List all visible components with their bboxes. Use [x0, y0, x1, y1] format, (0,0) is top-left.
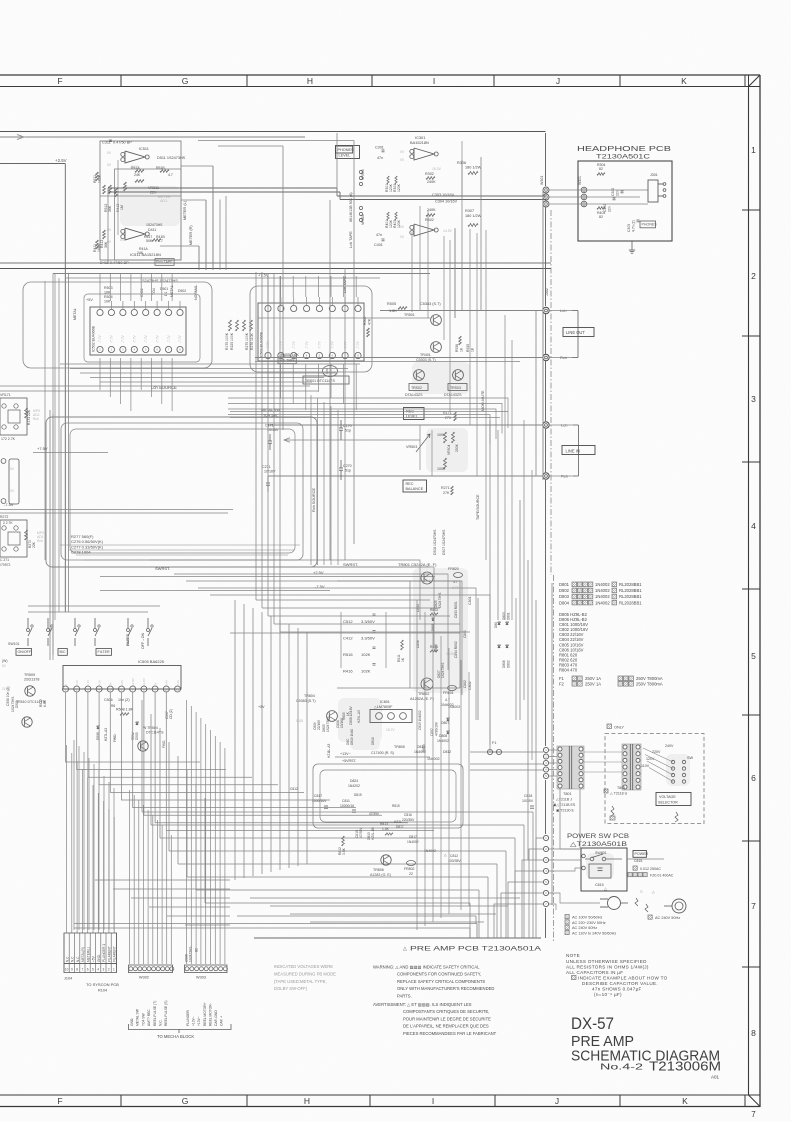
svg-text:ONLY: ONLY [614, 726, 625, 730]
svg-text:T801: T801 [617, 786, 625, 790]
svg-text:4: 4 [97, 968, 99, 972]
svg-text:POWER: POWER [635, 852, 649, 856]
svg-text:C278 1004: C278 1004 [71, 550, 91, 555]
svg-text:-7.7V: -7.7V [292, 341, 296, 349]
svg-text:R503: R503 [104, 286, 113, 290]
svg-text:F1: F1 [492, 741, 496, 745]
svg-text:A1282A (E. F): A1282A (E. F) [410, 697, 435, 701]
svg-text:TO SYSCON PCB: TO SYSCON PCB [86, 982, 119, 987]
svg-text:0V: 0V [109, 682, 113, 686]
svg-text:HZ9L-B5: HZ9L-B5 [371, 827, 375, 840]
svg-text:TR401: TR401 [420, 353, 431, 357]
svg-text:ALL CAPACITORS IN µF: ALL CAPACITORS IN µF [566, 970, 623, 975]
svg-text:22: 22 [409, 872, 413, 876]
svg-text:AMT? REC: AMT? REC [147, 1009, 151, 1026]
svg-text:4.4V: 4.4V [165, 680, 169, 686]
svg-text:D801: D801 [507, 612, 511, 620]
svg-text:27K: 27K [443, 491, 450, 495]
svg-text:-7.5V: -7.5V [4, 502, 14, 507]
svg-text:C401: C401 [374, 243, 383, 247]
svg-text:15.3V: 15.3V [432, 167, 442, 171]
svg-text:R51B: R51B [156, 166, 165, 170]
svg-text:R416: R416 [343, 669, 353, 674]
svg-text:WARNING: △ AND ▨▨▨ INDICATE SA: WARNING: △ AND ▨▨▨ INDICATE SAFETY CRITI… [373, 965, 480, 970]
svg-text:1N4002: 1N4002 [595, 588, 610, 593]
svg-text:0.47/50 BP: 0.47/50 BP [113, 141, 132, 145]
svg-text:AC 100V 50/60Hz: AC 100V 50/60Hz [572, 916, 602, 920]
svg-text:DOLBY SW-OFF): DOLBY SW-OFF) [274, 986, 308, 991]
svg-text:R511: R511 [93, 175, 97, 183]
svg-text:-7.7V: -7.7V [133, 335, 137, 343]
svg-text:TR806: TR806 [373, 868, 384, 872]
svg-text:R271: R271 [441, 486, 450, 490]
svg-text:PRE AMP PCB T2130A501A: PRE AMP PCB T2130A501A [410, 946, 542, 953]
svg-text:G: G [182, 1096, 189, 1106]
svg-text:47K: 47K [368, 318, 372, 325]
svg-text:C304 10/16V: C304 10/16V [435, 200, 458, 204]
svg-text:47n: 47n [377, 156, 383, 160]
svg-text:HZ2L: HZ2L [394, 820, 402, 824]
svg-text:+13V~: +13V~ [340, 752, 351, 756]
svg-text:I: I [432, 1096, 434, 1106]
svg-text:TRS02: TRS02 [411, 386, 422, 390]
svg-text:R516: R516 [343, 652, 353, 657]
svg-text:RL2028BB1: RL2028BB1 [619, 582, 642, 587]
svg-text:1K: 1K [471, 347, 475, 352]
svg-text:D807: D807 [441, 721, 449, 725]
svg-text:A1283 (G. E): A1283 (G. E) [370, 873, 391, 877]
svg-text:IC511 BA15218N: IC511 BA15218N [130, 252, 161, 257]
svg-text:Rch: Rch [37, 539, 43, 543]
svg-text:CrO2: CrO2 [140, 288, 144, 297]
svg-text:SELECTOR: SELECTOR [658, 800, 678, 804]
svg-text:INDICATE EXAMPLE ABOUT HOW TO: INDICATE EXAMPLE ABOUT HOW TO [578, 976, 668, 981]
svg-text:AC 110V to 240V 50/60Hz: AC 110V to 240V 50/60Hz [572, 931, 616, 935]
svg-text:LEVEL: LEVEL [406, 415, 418, 419]
svg-text:R536: R536 [455, 344, 459, 352]
svg-text:TR501: TR501 [404, 313, 415, 317]
svg-text:2: 2 [108, 968, 110, 972]
svg-text:D817: D817 [396, 825, 404, 829]
svg-text:R306: R306 [457, 161, 466, 165]
svg-text:4.7n (Z): 4.7n (Z) [632, 220, 636, 232]
svg-text:R405 1.6K: R405 1.6K [281, 353, 299, 357]
svg-text:1N4002: 1N4002 [437, 739, 449, 743]
svg-text:MEASURED DURING PB MODE: MEASURED DURING PB MODE [274, 971, 336, 976]
svg-text:C5383 (S.T): C5383 (S.T) [420, 302, 441, 306]
svg-text:-7.7V: -7.7V [155, 335, 159, 343]
svg-text:0.012 250AC: 0.012 250AC [640, 867, 661, 871]
svg-text:METER(L): METER(L) [86, 947, 90, 962]
svg-text:13/16V: 13/16V [340, 717, 344, 728]
svg-text:10: 10 [65, 968, 69, 972]
svg-text:IC502 BU4066B: IC502 BU4066B [92, 325, 96, 352]
svg-text:HZ9L-A3: HZ9L-A3 [357, 710, 361, 723]
svg-text:NOTE: NOTE [566, 953, 580, 958]
svg-text:8: 8 [751, 1028, 756, 1038]
svg-text:No.4-2: No.4-2 [600, 1062, 643, 1072]
svg-text:3.3/50V: 3.3/50V [361, 619, 375, 624]
svg-text:REEL MOTOR+: REEL MOTOR+ [203, 1002, 207, 1026]
svg-text:-7.7V: -7.7V [305, 341, 309, 349]
svg-text:D806: D806 [502, 660, 506, 668]
svg-text:1: 1 [751, 145, 756, 155]
svg-text:R804: R804 [430, 645, 438, 649]
svg-text:240K: 240K [427, 180, 436, 184]
svg-text:110V: 110V [641, 764, 650, 768]
svg-text:AVERTISSMENT: △ ET ▨▨▨. ILS IN: AVERTISSMENT: △ ET ▨▨▨. ILS INDIQUENT LE… [373, 1002, 472, 1007]
svg-text:D804: D804 [559, 600, 570, 605]
svg-text:CAP.-GND: CAP.-GND [214, 1010, 218, 1026]
svg-text:D801: D801 [559, 582, 570, 587]
svg-text:+13V~: +13V~ [192, 1016, 196, 1026]
svg-text:T213006M: T213006M [649, 1060, 721, 1074]
svg-text:F1: F1 [559, 676, 565, 681]
svg-text:250V T800mA: 250V T800mA [636, 682, 663, 687]
svg-text:FR802: FR802 [404, 867, 415, 871]
svg-text:PLUNGER 1: PLUNGER 1 [102, 944, 106, 962]
svg-text:N.C.: N.C. [159, 1019, 163, 1026]
svg-text:R813: R813 [380, 822, 388, 826]
svg-text:+5V: +5V [86, 298, 93, 302]
svg-text:22K: 22K [32, 541, 36, 548]
svg-text:BA15218N: BA15218N [410, 140, 429, 145]
svg-text:TAPE/SOURCE: TAPE/SOURCE [476, 494, 480, 520]
svg-text:180 1/2W: 180 1/2W [465, 166, 482, 170]
svg-text:36K: 36K [108, 205, 112, 212]
svg-text:△: △ [403, 946, 407, 952]
svg-text:C881: C881 [463, 630, 467, 638]
svg-text:B/C: B/C [60, 650, 66, 654]
svg-text:J: J [555, 1096, 559, 1106]
svg-text:RL2028BB1: RL2028BB1 [619, 588, 642, 593]
svg-text:R175 100K: R175 100K [225, 332, 229, 350]
svg-text:-7.1V: -7.1V [130, 165, 139, 169]
svg-text:15.5V: 15.5V [446, 652, 455, 656]
svg-text:IC801: IC801 [380, 700, 390, 704]
svg-text:+7.5V: +7.5V [258, 273, 269, 278]
svg-text:4780/16V: 4780/16V [435, 721, 439, 736]
svg-text:1K: 1K [460, 347, 464, 352]
svg-text:PHONES: PHONES [642, 223, 658, 227]
svg-text:C171: C171 [265, 424, 274, 428]
svg-text:△T2130A501B: △T2130A501B [570, 841, 627, 848]
svg-text:7: 7 [751, 901, 756, 911]
svg-text:D505: D505 [135, 732, 139, 740]
svg-text:C311: C311 [102, 141, 111, 145]
svg-text:R402: R402 [425, 218, 434, 222]
svg-text:R225 100K: R225 100K [230, 332, 234, 350]
svg-text:240V: 240V [665, 744, 674, 748]
svg-text:1N4002: 1N4002 [595, 600, 610, 605]
svg-text:F: F [57, 76, 62, 86]
svg-text:D824: D824 [350, 779, 358, 783]
svg-text:TRS03: TRS03 [450, 386, 461, 390]
svg-text:250V 1A: 250V 1A [585, 676, 601, 681]
svg-text:R6: R6 [111, 704, 115, 708]
svg-text:C813 1N4002: C813 1N4002 [418, 710, 422, 730]
svg-text:51p: 51p [345, 469, 351, 473]
svg-text:102K: 102K [361, 669, 371, 674]
svg-text:FR801: FR801 [443, 691, 454, 695]
svg-text:VR504: VR504 [447, 445, 451, 455]
svg-text:9: 9 [71, 968, 73, 972]
svg-text:1.6K: 1.6K [389, 309, 397, 313]
svg-text:C270: C270 [343, 464, 352, 468]
svg-text:▣ T2130 E: ▣ T2130 E [556, 809, 575, 813]
svg-text:1S2473HS: 1S2473HS [441, 663, 445, 678]
svg-text:J104: J104 [64, 977, 72, 981]
svg-text:8: 8 [76, 968, 78, 972]
svg-text:TR802: TR802 [418, 692, 429, 696]
svg-text:TR510 DTC114YS: TR510 DTC114YS [16, 700, 46, 704]
svg-text:C806: C806 [416, 640, 420, 648]
svg-text:D819 1N40: D819 1N40 [350, 729, 354, 745]
svg-text:△: △ [640, 889, 643, 893]
svg-text:LINE IN: LINE IN [566, 448, 580, 453]
svg-text:R804 470: R804 470 [559, 668, 578, 673]
svg-text:47n SHOWS 0.047µF: 47n SHOWS 0.047µF [592, 987, 642, 992]
svg-text:7: 7 [82, 968, 84, 972]
svg-text:D817: D817 [409, 835, 417, 839]
svg-text:15.7V: 15.7V [386, 728, 395, 732]
svg-text:△LM7805F: △LM7805F [374, 705, 393, 709]
svg-text:ONLY WITH MANUFACTURER'S RECOM: ONLY WITH MANUFACTURER'S RECOMMENDED [397, 986, 494, 991]
svg-text:C5383 (S.T): C5383 (S.T) [296, 699, 316, 703]
svg-text:REEL MOTOR-: REEL MOTOR- [208, 1003, 212, 1026]
svg-text:VR503: VR503 [406, 445, 417, 449]
svg-text:C815: C815 [634, 859, 642, 863]
svg-text:C170: C170 [343, 424, 352, 428]
svg-text:RL2028BB1: RL2028BB1 [619, 600, 642, 605]
svg-text:R307: R307 [465, 209, 474, 213]
svg-text:1N4002: 1N4002 [595, 594, 610, 599]
svg-text:Rch TAPE: Rch TAPE [156, 260, 173, 264]
svg-text:12.8V: 12.8V [142, 678, 146, 686]
svg-text:VR171: VR171 [0, 393, 11, 397]
svg-text:D814: D814 [417, 745, 425, 749]
svg-text:82: 82 [599, 215, 603, 219]
svg-text:FILTER: FILTER [126, 633, 130, 646]
svg-text:A01: A01 [711, 1075, 720, 1080]
svg-text:-7.7V: -7.7V [178, 335, 182, 343]
svg-text:F2: F2 [559, 682, 565, 687]
svg-text:D802: D802 [507, 660, 511, 668]
svg-text:D501: D501 [160, 287, 168, 291]
svg-text:△: △ [652, 890, 655, 894]
svg-text:2SD1378: 2SD1378 [24, 678, 39, 682]
svg-text:-7.7V: -7.7V [121, 335, 125, 343]
svg-text:4.7: 4.7 [158, 239, 163, 243]
svg-text:GND.: GND. [97, 954, 101, 962]
svg-text:RL2028BB1: RL2028BB1 [619, 594, 642, 599]
svg-text:4: 4 [751, 521, 756, 531]
svg-text:GND.: GND. [130, 1018, 134, 1026]
svg-text:24K: 24K [134, 173, 141, 177]
svg-text:D812: D812 [443, 750, 451, 754]
svg-text:TR804: TR804 [304, 694, 315, 698]
svg-text:1M: 1M [120, 205, 124, 210]
svg-text:NORMAL: NORMAL [194, 285, 198, 300]
svg-text:W303: W303 [196, 976, 206, 980]
svg-text:AC 240V 50Hz: AC 240V 50Hz [655, 916, 680, 920]
svg-text:27K: 27K [445, 416, 452, 420]
svg-text:TO4 SW.: TO4 SW. [263, 414, 278, 418]
svg-text:C 271: C 271 [0, 558, 9, 562]
svg-text:(TAPE USED:METAL TYPE,: (TAPE USED:METAL TYPE, [274, 979, 327, 984]
svg-text:1.5K: 1.5K [382, 827, 390, 831]
svg-text:+5VRST.: +5VRST. [342, 759, 356, 763]
svg-text:250V T800mA: 250V T800mA [636, 676, 663, 681]
svg-text:PHONES: PHONES [338, 148, 355, 152]
svg-text:2 2.7K: 2 2.7K [3, 521, 13, 525]
svg-text:ON/OFF: ON/OFF [18, 650, 32, 654]
svg-text:REPLACE SAFETY CRITICAL COMPON: REPLACE SAFETY CRITICAL COMPONENTS [397, 979, 485, 984]
svg-text:10K: 10K [104, 300, 111, 304]
svg-text:K: K [682, 1096, 688, 1106]
svg-text:D803: D803 [502, 612, 506, 620]
svg-text:DE L'APPAREIL, NE REMPLACER QU: DE L'APPAREIL, NE REMPLACER QUE DES [403, 1024, 489, 1029]
svg-text:N.C: N.C [71, 956, 75, 962]
svg-text:Rch: Rch [33, 417, 39, 421]
svg-text:22n: 22n [616, 190, 620, 196]
svg-text:HZ11L-A3: HZ11L-A3 [327, 743, 331, 758]
svg-text:24K: 24K [137, 251, 144, 255]
svg-text:6: 6 [751, 773, 756, 783]
svg-text:D507 1S2473HS: D507 1S2473HS [442, 529, 446, 555]
svg-text:C807: C807 [430, 728, 434, 736]
svg-text:82: 82 [599, 167, 603, 171]
svg-text:C882: C882 [463, 680, 467, 688]
svg-text:3: 3 [103, 968, 105, 972]
svg-text:R275 100K: R275 100K [245, 332, 249, 350]
svg-text:HEADPHONE PCB: HEADPHONE PCB [577, 144, 671, 153]
svg-text:FR820: FR820 [448, 567, 459, 571]
svg-text:100K: 100K [437, 433, 446, 437]
svg-text:6.1V: 6.1V [86, 680, 90, 686]
svg-text:C302: C302 [611, 188, 615, 196]
svg-text:103K: 103K [98, 174, 102, 183]
svg-text:N.C: N.C [65, 956, 69, 962]
svg-text:POWER SW PCB: POWER SW PCB [567, 833, 630, 840]
svg-text:250V 1A: 250V 1A [585, 682, 601, 687]
svg-text:D508 1S2473HS: D508 1S2473HS [433, 529, 437, 555]
svg-text:H: H [307, 76, 313, 86]
svg-text:22/16V: 22/16V [317, 719, 321, 730]
svg-text:AC 240V 60Hz: AC 240V 60Hz [572, 926, 597, 930]
svg-text:DX-57: DX-57 [571, 1014, 614, 1033]
svg-text:50K: 50K [146, 239, 153, 243]
svg-text:220/35V: 220/35V [402, 818, 415, 822]
svg-text:51p: 51p [345, 429, 351, 433]
svg-text:D808: D808 [439, 734, 447, 738]
svg-text:C801: C801 [468, 596, 472, 605]
svg-text:REC: REC [406, 482, 414, 486]
svg-text:-7.7V: -7.7V [356, 341, 360, 349]
svg-text:D80: D80 [494, 622, 498, 628]
svg-text:1: 1 [113, 968, 115, 972]
svg-text:REEL PULSE (T): REEL PULSE (T) [153, 1001, 157, 1026]
svg-text:W301: W301 [578, 176, 582, 185]
svg-text:5.8V: 5.8V [120, 680, 124, 686]
svg-text:2: 2 [751, 271, 756, 281]
svg-text:IC505 BA6225: IC505 BA6225 [138, 659, 165, 664]
svg-text:Lch TAPE: Lch TAPE [349, 231, 353, 248]
svg-text:12.8V: 12.8V [131, 678, 135, 686]
svg-text:47/35V: 47/35V [359, 827, 363, 838]
svg-text:VOLTAGE: VOLTAGE [659, 795, 676, 799]
svg-text:VR305: VR305 [361, 214, 365, 225]
svg-text:W TR504: W TR504 [143, 726, 158, 730]
svg-text:0V: 0V [153, 682, 157, 686]
svg-text:4.4V: 4.4V [176, 680, 180, 686]
svg-text:METAL: METAL [73, 308, 77, 320]
svg-text:DTA143ZS: DTA143ZS [444, 393, 462, 397]
svg-text:1S2473HS: 1S2473HS [146, 223, 163, 227]
svg-text:R302: R302 [425, 172, 434, 176]
svg-text:C412: C412 [343, 636, 353, 641]
svg-text:METER (L): METER (L) [183, 200, 187, 220]
svg-text:R815: R815 [392, 804, 400, 808]
svg-text:UNLESS OTHERWISE SPECIFIED: UNLESS OTHERWISE SPECIFIED [566, 959, 647, 964]
svg-text:C17400 (R. S): C17400 (R. S) [371, 751, 394, 755]
svg-text:D411: D411 [148, 228, 156, 232]
svg-text:220V: 220V [652, 750, 661, 754]
svg-text:1N4202: 1N4202 [348, 784, 360, 788]
svg-text:R272: R272 [0, 515, 8, 519]
svg-text:C811: C811 [342, 799, 350, 803]
svg-text:1000/16V: 1000/16V [312, 799, 327, 803]
svg-text:C817: C817 [314, 794, 322, 798]
svg-text:7: 7 [751, 1110, 756, 1119]
svg-text:3.9K: 3.9K [342, 847, 346, 855]
svg-text:10n (Z): 10n (Z) [118, 698, 130, 702]
svg-text:-7.7V: -7.7V [331, 341, 335, 349]
svg-text:R276 110K: R276 110K [250, 333, 254, 350]
svg-text:COMPOSTANTS CRITIQUES DE SECUR: COMPOSTANTS CRITIQUES DE SECURITE, [403, 1009, 489, 1014]
svg-text:D502: D502 [178, 289, 186, 293]
svg-text:240K: 240K [427, 208, 436, 212]
svg-text:C301: C301 [375, 146, 384, 150]
svg-text:TR801 C5242A (E. F): TR801 C5242A (E. F) [398, 562, 437, 567]
svg-text:(n=10⁻⁹ µF): (n=10⁻⁹ µF) [594, 992, 622, 997]
svg-text:C816: C816 [404, 813, 412, 817]
svg-text:47/35V: 47/35V [369, 812, 380, 816]
svg-text:OFF→ON: OFF→ON [141, 632, 145, 649]
svg-text:R508 1.8K: R508 1.8K [116, 708, 134, 712]
svg-text:ADJ.: ADJ. [160, 199, 168, 203]
svg-text:C5303 (S.T): C5303 (S.T) [416, 358, 436, 362]
svg-text:8K14K12B 50K (A): 8K14K12B 50K (A) [349, 192, 353, 222]
svg-text:10/16V: 10/16V [267, 428, 279, 432]
svg-text:-7.7V: -7.7V [167, 335, 171, 343]
svg-text:3.3/50V: 3.3/50V [361, 636, 375, 641]
svg-text:FILAMENT: FILAMENT [113, 946, 117, 962]
svg-text:-7.7V: -7.7V [98, 335, 102, 343]
svg-text:T801: T801 [563, 792, 572, 796]
svg-text:-7.7V: -7.7V [144, 335, 148, 343]
svg-text:IC511: IC511 [139, 147, 149, 151]
svg-text:R535: R535 [466, 344, 470, 352]
svg-text:5: 5 [751, 651, 756, 661]
svg-text:10000/16: 10000/16 [340, 804, 354, 808]
svg-text:C802: C802 [468, 681, 472, 690]
svg-text:4.7: 4.7 [168, 173, 173, 177]
svg-text:0935: 0935 [296, 719, 303, 723]
svg-text:J301: J301 [650, 173, 658, 177]
svg-text:METAL SW: METAL SW [136, 1008, 140, 1026]
svg-text:PARTS.: PARTS. [397, 993, 412, 998]
